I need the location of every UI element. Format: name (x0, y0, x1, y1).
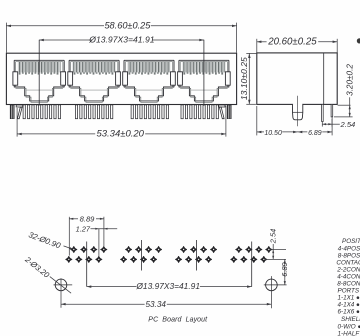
dimension 8.89 (69, 214, 104, 255)
dimension Ø13.97X3=41.91 (39, 35, 204, 45)
dimension 53.34±0.20 (17, 106, 226, 140)
svg-text:8-8POSITION: 8-8POSITION (338, 252, 360, 259)
svg-text:1-1X1 ●: 1-1X1 ● (338, 295, 360, 302)
peg center line (297, 96, 299, 127)
bent shield leg left (16, 105, 23, 119)
side view pin B (331, 104, 333, 117)
svg-text:6-1X6 ●: 6-1X6 ● (338, 309, 360, 316)
PCB holes group port 3 (175, 246, 217, 263)
svg-text:CONTACT PL: CONTACT PL (336, 259, 360, 266)
label 2-Ø3.20 with leader (23, 254, 72, 293)
dimension 13.10±0.25 (239, 53, 257, 104)
svg-text:2.54: 2.54 (269, 229, 278, 244)
svg-text:SHIELD: SHIELD (341, 316, 360, 323)
dimension 2.54 (side) (322, 117, 355, 129)
RJ45 jack port 1 opening (13, 60, 66, 102)
side view pin A (322, 104, 324, 121)
bent shield leg right (219, 105, 225, 119)
PCB holes group port 1 (65, 246, 107, 263)
PCB port 4 center line (251, 242, 253, 287)
PCB port 2 center line (141, 240, 143, 271)
svg-text:58.60±0.25: 58.60±0.25 (104, 21, 151, 31)
PCB port 3 center line (196, 240, 198, 271)
svg-text:53.34: 53.34 (145, 300, 166, 309)
svg-text:2-2CONTACT: 2-2CONTACT (336, 266, 360, 273)
side view: jack front face line (323, 53, 325, 104)
svg-text:4-4POSITION: 4-4POSITION (338, 245, 360, 252)
contact pins of port 4 (181, 105, 218, 119)
PCB mounting hole left (54, 278, 73, 307)
svg-text:POSITION: POSITION (342, 238, 360, 245)
side view: body outline (257, 53, 337, 105)
dimension 53.34 (PCB) (61, 300, 271, 309)
svg-text:8.89: 8.89 (80, 214, 96, 223)
PCB port 1 center line (86, 242, 88, 287)
svg-text:32-Ø0.90: 32-Ø0.90 (27, 230, 62, 250)
svg-text:PC Board Layout: PC Board Layout (148, 317, 208, 324)
contact pins of port 1 (23, 105, 60, 119)
dimensions 10.50 and 6.89 (side bottom) (257, 106, 332, 137)
svg-text:4-4CONTACT: 4-4CONTACT (337, 273, 360, 280)
svg-text:10.50: 10.50 (264, 130, 282, 137)
shield ground tab left (10, 105, 15, 119)
contact pins of port 2 (75, 105, 112, 119)
dimension 6.89 (PCB) (280, 259, 289, 285)
dimension 3.20±0.2 (334, 64, 355, 117)
PCB mounting hole right (264, 276, 287, 308)
dimension 58.60±0.25 (6, 21, 236, 53)
part numbering legend (clipped at right edge) (336, 238, 360, 336)
clipped symbol top right (357, 38, 360, 43)
port 1 center line (38, 40, 40, 106)
mounting peg (293, 103, 303, 119)
dimension 2.54 (PCB) (265, 229, 287, 260)
dimension 20.60±0.25 (257, 37, 337, 53)
svg-text:53.34±0.20: 53.34±0.20 (96, 129, 144, 140)
front view: shield body outline (6, 53, 236, 104)
svg-text:PORTS ●: PORTS ● (338, 287, 360, 294)
svg-text:8-8CONTACT: 8-8CONTACT (337, 280, 360, 287)
svg-text:1-HALF S: 1-HALF S (338, 330, 360, 336)
svg-text:2-Ø3.20: 2-Ø3.20 (23, 254, 52, 280)
svg-text:1.27: 1.27 (76, 224, 91, 233)
port 4 center line (203, 40, 205, 106)
RJ45 jack port 3 opening (123, 60, 176, 102)
svg-text:Ø13.97X3=41.91: Ø13.97X3=41.91 (135, 281, 200, 291)
svg-text:Ø13.97X3=41.91: Ø13.97X3=41.91 (88, 35, 154, 45)
label 32-Ø0.90 with leader (27, 230, 73, 250)
PCB holes group port 2 (120, 246, 162, 263)
shield ground tab right (227, 105, 232, 119)
dimension 1.27 (76, 224, 118, 256)
svg-text:6.89: 6.89 (308, 130, 322, 137)
caption PC Board Layout (148, 317, 208, 324)
svg-text:20.60±0.25: 20.60±0.25 (267, 37, 317, 48)
svg-text:3.20±0.2: 3.20±0.2 (346, 64, 355, 96)
svg-text:6.89: 6.89 (280, 262, 289, 276)
RJ45 jack port 2 opening (68, 60, 121, 102)
PCB holes group port 4 (230, 246, 272, 263)
svg-text:0-W/O ●: 0-W/O ● (338, 323, 360, 330)
dimension Ø13.97X3=41.91 (PCB) (87, 281, 252, 291)
svg-text:4-1X4 ●: 4-1X4 ● (338, 302, 360, 309)
RJ45 jack port 4 opening (178, 60, 231, 102)
svg-text:13.10±0.25: 13.10±0.25 (239, 57, 249, 100)
svg-text:2.54: 2.54 (340, 120, 356, 129)
contact pins of port 3 (131, 105, 168, 119)
